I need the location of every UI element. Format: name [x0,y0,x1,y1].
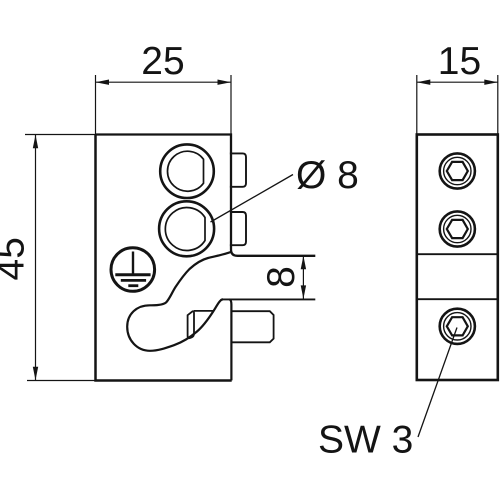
dim 15 arrow left [417,80,431,85]
stud right portion with chamfered end [232,311,274,342]
leader line diameter 8 [211,175,294,223]
hole circle top inner with flat [168,151,204,191]
side view internal line lower [417,298,498,300]
front view left and bottom edge [96,135,232,381]
dim 45 line [35,135,37,380]
hex screw 1 inner circle [444,157,471,184]
dim 15 line [417,81,498,83]
ground symbol circle [111,248,155,292]
front view body outline [96,135,316,256]
dim 45 extension line top [25,134,95,136]
dim 15 extension left [416,75,418,135]
dim 15 arrow right [484,80,498,85]
hole circle top outer [160,144,214,198]
hole circle bottom inner with flat [165,208,205,251]
hex screw 1 outer [440,153,475,188]
ground symbol bar 2 [121,279,146,282]
hook cavity S-curve, loop and rising nose [127,252,231,351]
hex screw 3 inner circle [444,313,471,340]
ground symbol bar 3 [128,284,138,287]
hex screw 2 outer [440,211,475,246]
stud left end cap [188,311,194,338]
hole circle bottom outer [159,201,214,256]
dim 25 line [96,81,232,83]
hex screw 3 socket [447,317,468,335]
dim 45 extension line bottom [27,380,95,382]
hex screw 3 outer [440,309,475,344]
svg-text:15: 15 [438,40,481,83]
leader line SW 3 [418,328,457,438]
svg-text:25: 25 [141,40,184,83]
dim 8 line [302,256,304,299]
hex screw 1 socket [447,162,468,180]
dim 25 arrow left [96,80,110,85]
side view rectangle [417,135,498,381]
dim 25 arrow right [218,80,232,85]
dim 25 extension line left [95,75,97,135]
stud top edge left segment [194,310,213,312]
ground symbol bar 1 [115,273,150,276]
dim 8 arrow down [301,285,306,299]
dim 45 arrow top [33,135,38,149]
hex screw 2 socket [447,220,468,238]
dim 8 arrow up [301,256,306,269]
arm bottom edge [222,298,315,300]
svg-text:Ø 8: Ø 8 [296,154,359,197]
ground symbol stem [132,252,134,275]
dim 25 extension line right [230,75,232,135]
dim 45 arrow bottom [33,367,38,381]
svg-text:45: 45 [0,237,33,280]
dim 15 extension right [497,75,499,135]
front view lower right edge below hook nose [230,299,232,380]
screw protrusion upper right [230,153,246,186]
svg-text:8: 8 [260,266,303,288]
hex screw 2 inner circle [444,215,471,242]
screw protrusion lower right [230,212,246,245]
svg-text:SW 3: SW 3 [318,419,413,462]
side view internal line upper [417,253,498,255]
